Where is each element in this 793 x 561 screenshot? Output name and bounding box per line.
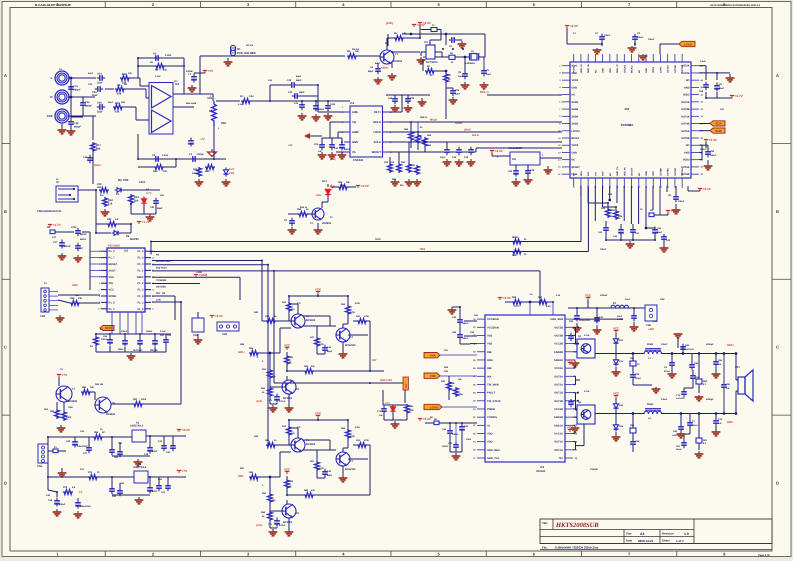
svg-text:Size: Size: [626, 532, 632, 536]
svg-text:R16: R16: [122, 73, 127, 76]
svg-text:OUT2B: OUT2B: [554, 326, 563, 329]
svg-text:MCLK: MCLK: [430, 119, 437, 122]
svg-text:1000uF: 1000uF: [600, 294, 608, 297]
svg-text:22pF: 22pF: [440, 156, 446, 159]
svg-text:3.7V: 3.7V: [146, 192, 152, 195]
svg-text:6.000MHz: 6.000MHz: [465, 62, 476, 65]
svg-text:SDA: SDA: [580, 171, 583, 176]
svg-text:P1_4: P1_4: [137, 250, 144, 253]
svg-text:P87C51M: P87C51M: [108, 245, 120, 248]
svg-text:68pF: 68pF: [296, 79, 302, 82]
svg-text:VSS: VSS: [109, 276, 114, 279]
svg-text:GND_SUB: GND_SUB: [550, 318, 563, 321]
svg-text:4.7uF: 4.7uF: [584, 390, 590, 393]
svg-text:5A: 5A: [573, 173, 576, 176]
svg-text:IC1: IC1: [424, 41, 429, 44]
svg-text:PWDN: PWDN: [487, 408, 495, 411]
svg-text:10k: 10k: [163, 170, 168, 173]
svg-text:68pF: 68pF: [327, 350, 333, 353]
svg-text:FILF: FILF: [602, 171, 605, 176]
svg-text:B: B: [776, 209, 779, 214]
svg-text:LED: LED: [316, 194, 321, 197]
svg-text:R9 10k: R9 10k: [352, 48, 360, 51]
svg-text:R84: R84: [82, 386, 87, 389]
svg-text:SUB4: SUB4: [572, 115, 579, 118]
svg-text:INA: INA: [430, 354, 436, 358]
svg-text:C47: C47: [83, 452, 88, 455]
svg-text:VCC: VCC: [567, 359, 574, 363]
svg-text:HKTS2008SUB: HKTS2008SUB: [555, 522, 599, 529]
svg-text:LM317/UL6: LM317/UL6: [133, 466, 147, 469]
svg-text:R87: R87: [133, 398, 138, 401]
svg-text:22uF: 22uF: [88, 72, 94, 75]
svg-text:VCC: VCC: [567, 426, 574, 430]
svg-text:NC: NC: [594, 69, 597, 73]
svg-text:CN4: CN4: [37, 465, 43, 468]
svg-text:0.1uF: 0.1uF: [238, 103, 244, 106]
svg-text:(1NF): (1NF): [256, 400, 262, 403]
svg-text:SUB6: SUB6: [572, 108, 579, 111]
svg-text:-7V: -7V: [200, 137, 205, 141]
svg-text:22uH: 22uH: [647, 343, 653, 346]
svg-text:R84 10k: R84 10k: [95, 383, 104, 386]
svg-text:680pF: 680pF: [85, 105, 92, 108]
svg-text:XOUT: XOUT: [109, 269, 117, 272]
svg-text:OUT2B: OUT2B: [554, 334, 563, 337]
svg-text:BA TM5: BA TM5: [118, 178, 129, 182]
svg-text:Page 4 /N: Page 4 /N: [758, 554, 770, 557]
svg-text:C84: C84: [710, 150, 715, 153]
svg-text:INB: INB: [487, 351, 492, 354]
svg-text:SDOUT: SDOUT: [372, 151, 382, 154]
svg-text:22uF: 22uF: [97, 82, 103, 85]
svg-text:1uF/100V: 1uF/100V: [676, 397, 685, 400]
svg-text:100nF: 100nF: [678, 200, 685, 203]
svg-text:470nF: 470nF: [279, 524, 286, 527]
svg-text:R23: R23: [97, 186, 102, 189]
svg-text:IC3: IC3: [175, 83, 180, 86]
svg-text:C30: C30: [455, 89, 460, 92]
svg-text:P1_3: P1_3: [109, 250, 116, 253]
svg-text:680uF: 680uF: [59, 503, 66, 506]
svg-text:SUB3: SUB3: [572, 101, 579, 104]
svg-text:R3 10k: R3 10k: [246, 44, 254, 47]
svg-text:470nF: 470nF: [279, 400, 286, 403]
svg-text:C: C: [4, 345, 7, 350]
svg-text:VCC2B: VCC2B: [554, 343, 563, 346]
svg-text:100nF: 100nF: [462, 322, 469, 325]
svg-text:4.7uF: 4.7uF: [584, 334, 590, 337]
svg-text:C46: C46: [48, 499, 53, 502]
svg-text:GND: GND: [352, 141, 358, 144]
svg-text:220pF: 220pF: [664, 370, 671, 373]
svg-text:L/TC: L/TC: [514, 305, 520, 308]
svg-text:51k: 51k: [108, 202, 113, 205]
svg-text:ICP: ICP: [372, 359, 377, 362]
svg-text:AT8068ETR: AT8068ETR: [508, 147, 522, 150]
svg-text:22uF: 22uF: [152, 450, 158, 453]
svg-text:VCCSIGN: VCCSIGN: [487, 326, 499, 329]
svg-text:GND: GND: [684, 151, 690, 154]
svg-text:SPK+: SPK+: [727, 344, 735, 347]
svg-text:30k: 30k: [134, 199, 139, 202]
svg-text:C: C: [776, 345, 779, 350]
svg-text:INB: INB: [430, 374, 436, 378]
svg-text:BICKO: BICKO: [631, 65, 634, 73]
svg-text:NC: NC: [638, 172, 641, 176]
svg-text:GND1A: GND1A: [554, 424, 563, 427]
svg-text:470k: 470k: [364, 439, 370, 442]
svg-text:R71: R71: [88, 471, 93, 474]
svg-text:XTI: XTI: [594, 172, 597, 176]
svg-text:SCL: SCL: [420, 247, 426, 251]
svg-text:BAT85: BAT85: [130, 237, 139, 241]
svg-text:LRCK2: LRCK2: [572, 130, 581, 133]
svg-text:Sheet: Sheet: [662, 539, 670, 543]
svg-text:BC3904: BC3904: [306, 319, 316, 322]
svg-text:IC6: IC6: [512, 158, 517, 161]
svg-text:1uF/100V: 1uF/100V: [685, 348, 694, 351]
svg-text:68k: 68k: [96, 147, 101, 150]
svg-text:R12: R12: [193, 168, 198, 171]
svg-text:220pF: 220pF: [635, 377, 642, 380]
svg-text:LD1: LD1: [322, 180, 327, 183]
svg-text:470k: 470k: [350, 435, 356, 438]
svg-text:4.7uF: 4.7uF: [155, 75, 161, 78]
svg-text:100nF: 100nF: [700, 148, 707, 151]
svg-text:VAM: VAM: [72, 284, 78, 287]
svg-text:L: L: [51, 76, 53, 80]
svg-text:GND2B: GND2B: [554, 351, 563, 354]
svg-text:BC3904: BC3904: [283, 521, 293, 524]
svg-text:OUT1A: OUT1A: [681, 168, 684, 176]
svg-text:68uF: 68uF: [719, 87, 725, 90]
svg-text:1.2uF: 1.2uF: [165, 54, 172, 57]
svg-text:470k: 470k: [319, 343, 325, 346]
svg-text:IC4: IC4: [625, 107, 630, 111]
svg-text:10k: 10k: [163, 69, 168, 72]
svg-text:OUT1B: OUT1B: [554, 392, 563, 395]
svg-text:NC: NC: [638, 69, 641, 73]
svg-text:C38: C38: [83, 156, 88, 159]
svg-text:LRCK: LRCK: [374, 131, 382, 134]
svg-text:C91: C91: [569, 320, 574, 323]
svg-text:680nF: 680nF: [318, 108, 325, 111]
svg-text:STA540: STA540: [536, 470, 546, 473]
svg-text:22uF: 22uF: [108, 101, 114, 104]
svg-text:100k: 100k: [409, 409, 415, 412]
svg-text:VCC: VCC: [613, 392, 620, 396]
svg-text:R02: R02: [115, 102, 120, 105]
svg-text:VDD3: VDD3: [683, 94, 690, 97]
svg-text:OUT1A: OUT1A: [554, 441, 563, 444]
svg-text:+3.3V: +3.3V: [182, 428, 191, 432]
svg-text:220pF: 220pF: [197, 153, 204, 156]
svg-text:NC: NC: [686, 79, 690, 82]
svg-text:330nF: 330nF: [661, 343, 668, 346]
svg-text:GND2A: GND2A: [554, 359, 563, 362]
svg-text:1 of 1: 1 of 1: [676, 539, 684, 543]
svg-text:BC54140: BC54140: [345, 344, 356, 347]
svg-text:XIN: XIN: [109, 282, 113, 285]
svg-text:(1NF) 2Z8: (1NF) 2Z8: [380, 379, 392, 382]
svg-text:C42: C42: [66, 440, 71, 443]
svg-text:CN6: CN6: [646, 324, 651, 327]
svg-text:C102: C102: [71, 226, 77, 229]
svg-text:NC: NC: [686, 144, 690, 147]
svg-text:SDA: SDA: [715, 122, 722, 126]
svg-text:RESET: RESET: [572, 166, 581, 169]
svg-text:0.1uF: 0.1uF: [700, 60, 706, 63]
svg-text:C40: C40: [288, 91, 293, 94]
svg-text:OUT3A: OUT3A: [681, 101, 690, 104]
svg-text:2N3904: 2N3904: [106, 413, 116, 416]
svg-text:C47: C47: [53, 241, 58, 244]
svg-text:AST/SEN: AST/SEN: [156, 286, 166, 289]
svg-text:NC: NC: [609, 172, 612, 176]
svg-text:22uF: 22uF: [152, 490, 158, 493]
svg-text:P1_1: P1_1: [137, 269, 144, 272]
svg-text:+48V: +48V: [652, 320, 658, 323]
svg-text:P1_7: P1_7: [109, 308, 116, 311]
svg-text:22uF: 22uF: [617, 315, 623, 318]
svg-text:+3.3V: +3.3V: [703, 187, 712, 191]
svg-text:OUT1A: OUT1A: [554, 449, 563, 452]
svg-text:OUT4A: OUT4A: [681, 115, 690, 118]
svg-text:SPK-: SPK-: [238, 475, 244, 478]
svg-text:AINR: AINR: [352, 131, 359, 134]
svg-text:A3: A3: [640, 532, 644, 536]
svg-text:VSS: VSS: [487, 343, 492, 346]
svg-text:BT: BT: [613, 302, 617, 305]
svg-text:680pF: 680pF: [74, 89, 81, 92]
svg-text:P1_7: P1_7: [109, 257, 116, 260]
svg-text:10k: 10k: [117, 92, 122, 95]
svg-text:INA: INA: [444, 349, 448, 352]
svg-text:VCC: VCC: [585, 294, 592, 298]
svg-text:AINL: AINL: [352, 111, 359, 114]
svg-text:P1_6: P1_6: [137, 308, 144, 311]
svg-text:(1NF): (1NF): [330, 158, 336, 161]
svg-text:22uH: 22uH: [647, 403, 653, 406]
svg-text:GND_CLK: GND_CLK: [487, 457, 500, 460]
svg-text:VCC: VCC: [284, 468, 291, 472]
svg-text:C60: C60: [699, 90, 704, 93]
svg-text:TONE/BU: TONE/BU: [156, 279, 167, 282]
svg-text:IC8: IC8: [540, 466, 545, 469]
svg-text:BC54140: BC54140: [345, 468, 356, 471]
svg-text:RESET: RESET: [109, 263, 118, 266]
svg-text:100nF: 100nF: [600, 248, 607, 251]
svg-text:VDD3: VDD3: [652, 66, 655, 73]
svg-text:VDD3: VDD3: [683, 159, 690, 162]
svg-text:VDD_PL: VDD_PL: [623, 166, 626, 176]
svg-text:D: D: [4, 481, 7, 486]
svg-text:Z3Z2: Z3Z2: [139, 181, 146, 184]
svg-text:VCC: VCC: [315, 412, 322, 416]
svg-text:SPK+: SPK+: [238, 351, 245, 354]
svg-text:2.2k: 2.2k: [249, 95, 254, 98]
svg-text:68pF: 68pF: [327, 474, 333, 477]
svg-text:CN3: CN3: [222, 333, 228, 336]
svg-text:SCL: SCL: [587, 171, 590, 176]
svg-text:C50: C50: [508, 170, 513, 173]
svg-text:NC7SZ04: NC7SZ04: [426, 61, 438, 64]
svg-text:22uF: 22uF: [625, 298, 631, 301]
svg-text:GND: GND: [645, 68, 648, 73]
svg-text:+1.7V: +1.7V: [142, 220, 151, 224]
svg-text:C61: C61: [150, 206, 155, 209]
svg-text:VDD: VDD: [609, 68, 612, 73]
svg-text:IC2: IC2: [350, 102, 355, 105]
svg-text:A: A: [4, 73, 7, 78]
svg-text:+3.3V: +3.3V: [503, 296, 512, 300]
svg-text:470k: 470k: [350, 311, 356, 314]
svg-text:KIN(P): KIN(P): [381, 67, 389, 70]
svg-text:+3.3V: +3.3V: [671, 209, 680, 213]
svg-text:A: A: [776, 73, 779, 78]
svg-text:LAB: LAB: [156, 298, 161, 301]
svg-text:100nF: 100nF: [462, 337, 469, 340]
svg-text:IC5: IC5: [124, 250, 129, 253]
svg-text:LRCK: LRCK: [464, 129, 471, 132]
svg-text:OUT8A: OUT8A: [667, 168, 670, 176]
svg-text:CN6: CN6: [660, 298, 665, 301]
svg-text:GND_PL: GND_PL: [616, 166, 619, 176]
svg-text:VL: VL: [487, 424, 491, 427]
svg-text:C100: C100: [330, 103, 336, 106]
svg-text:INB: INB: [444, 370, 448, 373]
svg-text:B-CA45-04-HKTS200SUB: B-CA45-04-HKTS200SUB: [35, 3, 72, 7]
svg-text:P1_5: P1_5: [109, 301, 116, 304]
svg-text:68uF: 68uF: [657, 231, 663, 234]
svg-text:CKOUT: CKOUT: [631, 167, 634, 176]
svg-text:680nF: 680nF: [80, 238, 87, 241]
svg-text:100nF: 100nF: [637, 36, 644, 39]
svg-text:100k: 100k: [66, 416, 72, 419]
svg-text:IN2A: IN2A: [487, 359, 493, 362]
svg-text:Z1H: Z1H: [229, 172, 234, 175]
svg-text:22uF: 22uF: [97, 111, 103, 114]
svg-text:SCLK: SCLK: [374, 141, 381, 144]
svg-text:+7V: +7V: [62, 373, 69, 377]
svg-text:VA: VA: [352, 151, 356, 154]
svg-text:470k: 470k: [364, 315, 370, 318]
svg-text:470k: 470k: [319, 467, 325, 470]
svg-text:5.6k: 5.6k: [192, 172, 197, 175]
svg-text:470k: 470k: [355, 426, 361, 429]
svg-text:22uF: 22uF: [92, 94, 98, 97]
svg-text:GND: GND: [572, 86, 578, 89]
svg-text:100uF: 100uF: [146, 330, 153, 333]
svg-text:LM317/UL3: LM317/UL3: [130, 425, 144, 428]
svg-text:PCB_HOLDER: PCB_HOLDER: [237, 52, 256, 55]
svg-text:GND_REG: GND_REG: [487, 449, 500, 452]
svg-text:+3.3V: +3.3V: [417, 23, 426, 27]
svg-text:100nF: 100nF: [648, 38, 655, 41]
svg-text:OUT2A: OUT2A: [554, 383, 563, 386]
svg-text:LFE: LFE: [47, 114, 53, 118]
svg-text:22pF: 22pF: [486, 73, 492, 76]
svg-text:(1NF): (1NF): [94, 164, 101, 167]
svg-text:R73: R73: [63, 486, 68, 489]
svg-text:OUT1B: OUT1B: [554, 400, 563, 403]
svg-text:ST6088A: ST6088A: [621, 123, 635, 127]
svg-text:R64 4.99k: R64 4.99k: [186, 102, 197, 105]
svg-text:1.0: 1.0: [684, 532, 689, 536]
svg-text:LOAD: LOAD: [684, 42, 693, 46]
svg-text:1.2uF: 1.2uF: [162, 154, 169, 157]
svg-text:M1: M1: [237, 48, 241, 51]
svg-text:+VAM: +VAM: [196, 271, 202, 274]
svg-text:+3.3V: +3.3V: [495, 149, 504, 153]
svg-text:VCC: VCC: [315, 288, 322, 292]
svg-text:VCC2A: VCC2A: [554, 367, 563, 370]
svg-text:SUB_36: SUB_36: [587, 64, 590, 73]
svg-text:INB: INB: [487, 367, 492, 370]
svg-text:68pF: 68pF: [296, 75, 302, 78]
svg-text:NC: NC: [572, 94, 576, 97]
svg-text:+3.3V: +3.3V: [215, 314, 224, 318]
svg-text:GODO: GODO: [455, 122, 462, 125]
svg-text:R26: R26: [338, 181, 343, 184]
svg-text:2N3904: 2N3904: [322, 222, 332, 225]
svg-text:PDS_in: PDS_in: [480, 91, 489, 94]
svg-text:INA: INA: [487, 375, 492, 378]
svg-text:SCLK: SCLK: [472, 134, 479, 137]
svg-text:P1_3: P1_3: [137, 301, 144, 304]
svg-text:C42: C42: [287, 79, 292, 82]
svg-text:CONFIG: CONFIG: [487, 416, 497, 419]
svg-text:SUB2: SUB2: [572, 123, 579, 126]
svg-text:MCLK: MCLK: [373, 121, 381, 124]
svg-text:NC: NC: [559, 457, 563, 460]
svg-text:470k: 470k: [355, 302, 361, 305]
svg-text:VDD: VDD: [487, 432, 493, 435]
svg-text:(1NF): (1NF): [256, 524, 262, 527]
svg-text:VCC1A: VCC1A: [554, 432, 563, 435]
svg-text:OUT4B: OUT4B: [681, 123, 690, 126]
svg-text:680nF: 680nF: [692, 424, 699, 427]
svg-text:STA540: STA540: [590, 468, 599, 471]
svg-text:GND1B: GND1B: [554, 416, 563, 419]
svg-text:R90: R90: [107, 218, 112, 221]
svg-text:NC: NC: [572, 159, 576, 162]
svg-text:OUT5B: OUT5B: [681, 137, 690, 140]
svg-text:HKTS-2008SUB/SU-SV2008SUB/SA-S: HKTS-2008SUB/SU-SV2008SUB/SA-SUB-4.5: [710, 4, 761, 7]
svg-text:100uF: 100uF: [121, 330, 128, 333]
svg-text:680pF: 680pF: [74, 126, 81, 129]
svg-text:R14: R14: [153, 170, 158, 173]
svg-text:TRI_WAR: TRI_WAR: [487, 383, 499, 386]
svg-text:C30: C30: [410, 97, 415, 100]
svg-text:Revision: Revision: [662, 532, 674, 536]
svg-text:VCC: VCC: [109, 289, 115, 292]
svg-text:GND: GND: [572, 151, 578, 154]
svg-text:VDD3: VDD3: [572, 144, 579, 147]
svg-text:3.3k: 3.3k: [546, 305, 551, 308]
svg-text:+3.3V: +3.3V: [709, 138, 718, 142]
svg-text:OUT1B: OUT1B: [674, 65, 677, 73]
svg-text:10k: 10k: [78, 297, 83, 300]
svg-text:680nF: 680nF: [64, 245, 71, 248]
svg-text:+1V: +1V: [288, 144, 293, 147]
svg-text:-7V: -7V: [78, 490, 82, 494]
svg-text:FAULT: FAULT: [487, 392, 496, 395]
svg-text:Seq-Point: Seq-Point: [156, 266, 167, 269]
svg-text:680uF/16V: 680uF/16V: [80, 505, 91, 508]
svg-text:OUT1A: OUT1A: [667, 65, 670, 73]
